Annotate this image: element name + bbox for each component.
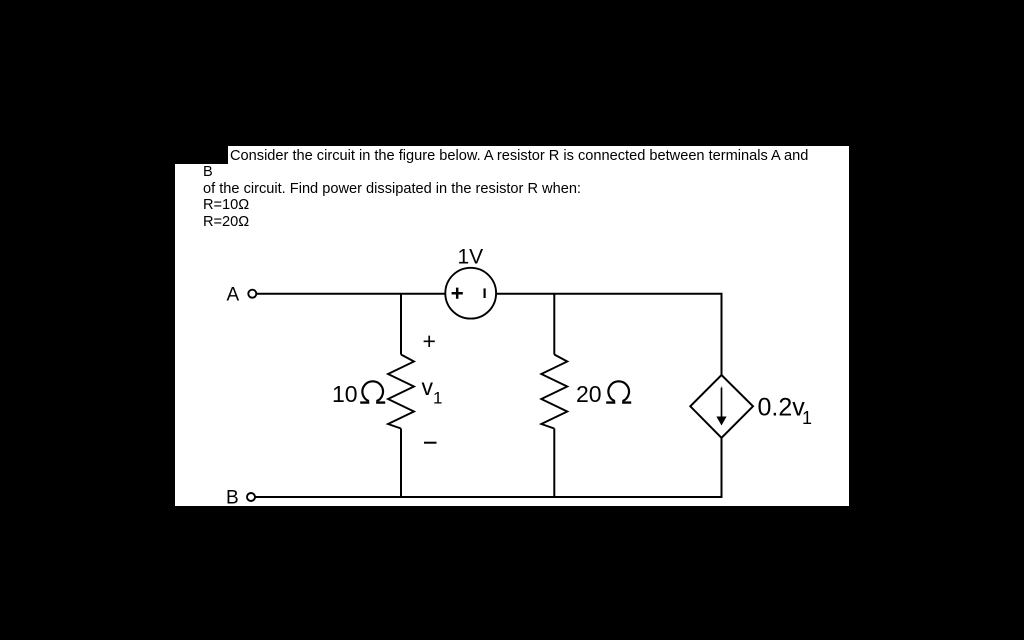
resistor R2 20 ohm zigzag: [541, 355, 567, 429]
svg-text:1: 1: [802, 408, 812, 428]
terminal B node circle: [247, 493, 255, 501]
svg-text:B: B: [226, 488, 239, 509]
svg-text:v: v: [422, 374, 434, 400]
dependent source arrow shaft: [721, 388, 723, 418]
dependent source arrow head: [716, 417, 726, 426]
terminal A node circle: [248, 290, 256, 298]
problem text line 4: [203, 198, 249, 213]
wire top of 10 ohm branch: [400, 294, 402, 355]
problem text line 3: [203, 182, 581, 197]
arrow start dot: [721, 386, 723, 388]
problem text line 1: [230, 149, 808, 164]
wire bottom of 20 ohm branch: [553, 429, 555, 498]
wire top of dependent source branch: [721, 294, 723, 376]
svg-text:0.2v: 0.2v: [758, 394, 806, 422]
svg-text:+: +: [423, 328, 436, 354]
problem text line 2: [203, 165, 213, 180]
wire voltage source to right corner: [496, 293, 722, 295]
wire A to voltage source: [257, 293, 446, 295]
label ohm for R2: [608, 381, 629, 401]
wire bottom of 10 ohm branch: [400, 429, 402, 498]
svg-text:1: 1: [433, 389, 442, 408]
main white panel: [175, 164, 849, 506]
voltage source right bar: [484, 288, 486, 298]
svg-text:A: A: [227, 285, 240, 306]
wire top of 20 ohm branch: [553, 294, 555, 355]
svg-text:10: 10: [332, 381, 358, 407]
minus label below v1: [424, 442, 437, 444]
svg-text:20: 20: [576, 381, 602, 407]
problem text line 5: [203, 215, 249, 230]
resistor R1 10 ohm zigzag: [388, 355, 414, 429]
label ohm for R1: [362, 381, 383, 401]
svg-text:1V: 1V: [458, 246, 484, 269]
white header strip: [228, 146, 849, 164]
wire bottom of dependent source branch: [721, 438, 723, 497]
bottom wire B to dependent source branch: [255, 496, 722, 498]
dependent source diamond: [690, 375, 753, 438]
voltage source V 1V circle: [445, 268, 496, 319]
voltage source plus sign: [452, 288, 463, 299]
